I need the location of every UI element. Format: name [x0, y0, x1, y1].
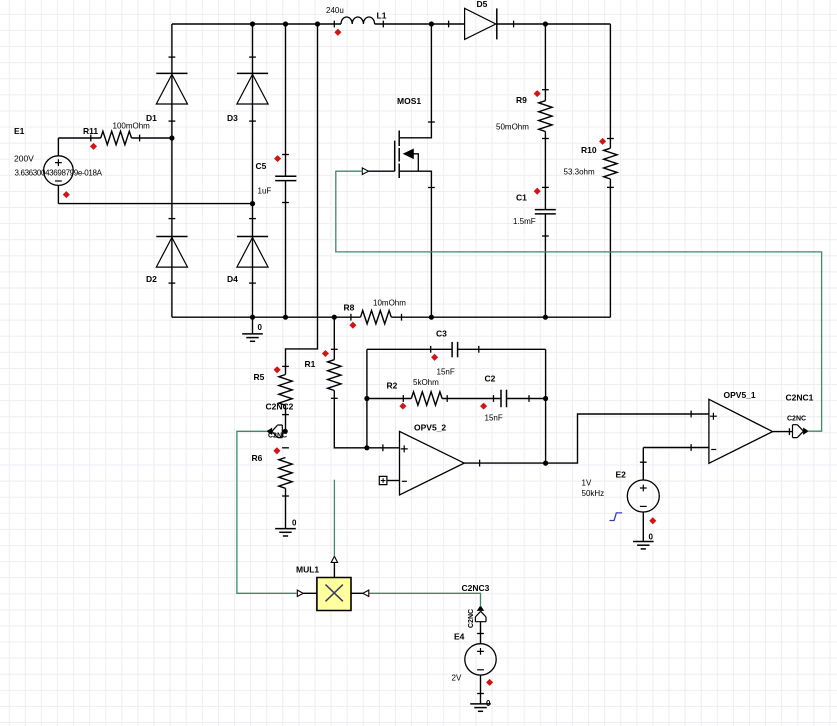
svg-text:C2NC3: C2NC3	[462, 583, 490, 593]
svg-text:0: 0	[258, 323, 263, 332]
svg-text:E4: E4	[454, 632, 465, 642]
svg-text:D5: D5	[477, 0, 488, 9]
svg-text:R10: R10	[581, 145, 597, 155]
svg-text:200V: 200V	[14, 154, 34, 164]
svg-text:D1: D1	[146, 113, 157, 123]
svg-text:100mOhm: 100mOhm	[113, 122, 151, 131]
svg-text:C2NC2: C2NC2	[266, 402, 294, 412]
svg-text:3.63630043698799e-018A: 3.63630043698799e-018A	[15, 169, 103, 178]
svg-text:10mOhm: 10mOhm	[373, 299, 406, 308]
svg-text:C5: C5	[256, 161, 267, 171]
svg-text:R5: R5	[254, 372, 265, 382]
svg-text:MOS1: MOS1	[397, 96, 421, 106]
svg-text:2V: 2V	[452, 674, 462, 683]
svg-text:R2: R2	[387, 381, 398, 391]
svg-text:MUL1: MUL1	[296, 565, 319, 575]
svg-text:C2NC1: C2NC1	[786, 393, 814, 403]
svg-text:0: 0	[649, 533, 654, 542]
svg-text:C1: C1	[516, 193, 527, 203]
svg-text:1uF: 1uF	[258, 187, 272, 196]
svg-text:E1: E1	[14, 126, 25, 136]
svg-text:15nF: 15nF	[437, 368, 455, 377]
svg-text:OPV5_1: OPV5_1	[724, 390, 756, 400]
svg-text:0: 0	[486, 699, 491, 708]
svg-text:D3: D3	[227, 113, 238, 123]
svg-text:50kHz: 50kHz	[582, 489, 605, 498]
svg-text:R6: R6	[252, 453, 263, 463]
svg-text:1.5mF: 1.5mF	[513, 217, 536, 226]
svg-text:L1: L1	[377, 11, 387, 21]
svg-text:C2NC: C2NC	[268, 433, 287, 440]
svg-text:E2: E2	[616, 470, 627, 480]
svg-text:OPV5_2: OPV5_2	[414, 423, 446, 433]
svg-text:R11: R11	[83, 126, 98, 136]
svg-text:15nF: 15nF	[485, 414, 503, 423]
svg-text:D4: D4	[227, 274, 238, 284]
svg-text:53.3ohm: 53.3ohm	[564, 168, 595, 177]
svg-text:R8: R8	[344, 303, 355, 313]
svg-text:1V: 1V	[582, 479, 592, 488]
svg-text:C2: C2	[485, 374, 496, 384]
svg-text:C2NC: C2NC	[468, 609, 475, 628]
svg-text:240u: 240u	[326, 6, 344, 15]
svg-text:C2NC: C2NC	[787, 416, 806, 423]
svg-text:R9: R9	[516, 95, 527, 105]
svg-text:50mOhm: 50mOhm	[496, 123, 529, 132]
svg-text:C3: C3	[436, 329, 447, 339]
svg-text:0: 0	[292, 519, 297, 528]
svg-text:R1: R1	[305, 359, 316, 369]
svg-text:D2: D2	[146, 274, 157, 284]
svg-text:5kOhm: 5kOhm	[413, 378, 439, 387]
